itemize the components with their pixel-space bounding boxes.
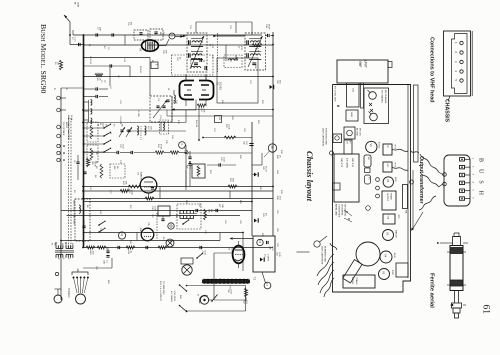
osc coil pair	[137, 126, 139, 135]
svg-text:C4: C4	[109, 86, 111, 89]
svg-text:12: 12	[120, 233, 123, 236]
choke box 2	[87, 145, 98, 162]
svg-text:ECH81: ECH81	[219, 82, 222, 90]
svg-text:R48: R48	[179, 295, 181, 300]
svg-text:R36: R36	[280, 190, 282, 195]
svg-text:C39: C39	[204, 230, 206, 235]
svg-text:V5: V5	[382, 271, 386, 275]
long wire Y210	[61, 210, 252, 212]
svg-text:O.O1: O.O1	[271, 246, 273, 252]
long wire pair 2	[83, 198, 273, 200]
cap on Y35 b	[112, 33, 114, 36]
svg-text:V4: V4	[384, 254, 388, 258]
gram plug	[76, 294, 86, 304]
resistor on left rail	[59, 60, 62, 70]
grid box	[346, 110, 358, 121]
long wire pair 1	[83, 186, 273, 188]
left rail 2 (dashed lead pair)	[68, 118, 70, 248]
svg-text:R1O: R1O	[99, 210, 101, 215]
svg-text:C41: C41	[224, 220, 226, 225]
svg-text:C45: C45	[269, 246, 271, 251]
dial lamp holder	[410, 180, 414, 184]
svg-text:EABC8O: EABC8O	[139, 172, 142, 181]
svg-text:FL: FL	[51, 243, 53, 246]
svg-text:R11: R11	[200, 109, 202, 113]
svg-text:1OOK: 1OOK	[228, 124, 230, 130]
svg-text:R27: R27	[209, 170, 211, 175]
svg-text:4: 4	[472, 182, 474, 184]
svg-text:C1: C1	[100, 80, 102, 83]
svg-text:1ST: 1ST	[346, 141, 348, 145]
svg-text:2: 2	[155, 64, 158, 66]
ferrite rod mount	[452, 303, 462, 308]
wire Y240	[61, 240, 220, 242]
valve V1 on chassis	[366, 141, 377, 152]
svg-text:R9 56O: R9 56O	[139, 66, 141, 73]
svg-text:S3: S3	[113, 124, 115, 126]
trimmer C13	[120, 130, 123, 132]
svg-text:m: m	[170, 34, 174, 37]
left edge small box	[333, 183, 341, 190]
svg-text:IFT3: IFT3	[240, 46, 242, 51]
svg-text:C9: C9	[117, 75, 119, 78]
svg-text:LEAD: LEAD	[77, 2, 80, 8]
svg-text:FL 6A: FL 6A	[70, 115, 73, 121]
IFT2 box	[383, 144, 392, 155]
svg-text:Output transformer: Output transformer	[418, 156, 424, 204]
resistor R36 vert	[204, 209, 207, 220]
cap C42 on rail	[249, 144, 253, 146]
VHF connector pins 1-5	[460, 41, 463, 44]
chassis inner edge line	[407, 85, 409, 278]
HT feed arrow to V4	[233, 238, 253, 240]
svg-text:5: 5	[454, 79, 458, 81]
loudspeaker	[182, 265, 192, 275]
gang caps	[153, 100, 167, 118]
aerial coil taps	[91, 100, 92, 106]
dropper resistor strip	[403, 185, 408, 209]
input terminal column	[57, 144, 60, 147]
output transformer T2	[202, 280, 250, 284]
svg-text:LAST COMPONENT: LAST COMPONENT	[321, 246, 324, 265]
svg-text:GP: GP	[76, 269, 80, 273]
svg-text:56K: 56K	[210, 209, 212, 213]
svg-text:2O4: 2O4	[102, 123, 104, 127]
svg-text:R13: R13	[177, 120, 179, 125]
gram socket pins	[73, 277, 75, 279]
mains switch lever	[212, 295, 218, 302]
vertical 240 bottom	[219, 233, 221, 241]
svg-text:VOL: VOL	[387, 216, 389, 221]
VHF connector chassis lead	[448, 96, 450, 101]
svg-text:C26: C26	[211, 55, 213, 60]
svg-text:C5: C5	[91, 162, 93, 165]
OSC cable	[392, 167, 408, 170]
svg-text:R5: R5	[86, 205, 88, 208]
svg-text:R34: R34	[276, 155, 278, 160]
svg-text:AERIAL LEAD: AERIAL LEAD	[335, 204, 338, 216]
svg-text:C49: C49	[262, 166, 264, 171]
svg-text:IFT: IFT	[348, 141, 350, 145]
cap below Y247	[106, 251, 109, 253]
left rail	[60, 88, 62, 300]
cap stack C30	[188, 157, 191, 159]
svg-text:UNIT: UNIT	[364, 60, 368, 68]
numbered box 14	[215, 116, 222, 123]
svg-text:C48: C48	[221, 204, 223, 207]
svg-text:O.O1: O.O1	[204, 251, 206, 257]
svg-text:R33: R33	[225, 124, 227, 127]
IFT2 cable	[392, 149, 408, 151]
resistor R6 vertical	[100, 164, 103, 178]
grid circuit wire rectangle	[217, 58, 258, 103]
connector DR455 left loops	[443, 173, 447, 177]
svg-text:2: 2	[454, 51, 458, 53]
valve V5 on chassis	[379, 269, 390, 280]
circled node 12	[118, 232, 125, 239]
svg-text:2ND IFT3: 2ND IFT3	[340, 158, 342, 168]
svg-text:C12 8OP: C12 8OP	[119, 116, 121, 125]
svg-text:FIT 107 ML-2808: FIT 107 ML-2808	[334, 86, 336, 102]
wire V249 vertical	[213, 253, 215, 283]
wire Y122 osc	[83, 122, 186, 124]
res on Y75	[95, 73, 103, 76]
output trans box	[382, 191, 396, 210]
svg-text:C14: C14	[89, 186, 91, 191]
svg-text:5O: 5O	[265, 213, 267, 216]
svg-text:LS: LS	[264, 254, 266, 257]
circled meter M	[169, 33, 175, 39]
svg-text:AE: AE	[74, 2, 77, 5]
svg-text:C1O: C1O	[123, 58, 125, 63]
V1 left components	[174, 95, 175, 103]
ext speaker parts	[260, 258, 263, 262]
circled node 4	[179, 142, 186, 149]
VHF cable lead 1	[420, 154, 439, 172]
electrolytic C52 on HT rail	[270, 85, 273, 89]
svg-text:FS1: FS1	[229, 286, 231, 289]
svg-text:6: 6	[472, 197, 474, 199]
mid cluster caps	[117, 151, 119, 154]
resistors on mid wires	[120, 189, 129, 192]
svg-text:C7: C7	[96, 27, 98, 30]
earth bus (heavy)	[83, 35, 85, 249]
mains plug	[200, 296, 208, 304]
dial window rect	[414, 85, 419, 162]
arrow into IFT2	[183, 35, 186, 37]
trimmer C15	[127, 130, 130, 132]
svg-text:C22: C22	[229, 25, 231, 30]
caps C1 C2 cluster	[96, 87, 98, 90]
AGC wire with arrow	[172, 109, 274, 111]
svg-text:L5: L5	[109, 132, 111, 135]
svg-text:L5: L5	[99, 123, 101, 125]
svg-text:R18: R18	[231, 116, 233, 121]
svg-text:STEREO: STEREO	[67, 288, 69, 298]
svg-text:Ferrite aerial: Ferrite aerial	[429, 273, 435, 308]
svg-text:R37: R37	[261, 233, 263, 238]
cap C32	[219, 163, 221, 166]
svg-text:EZ80: EZ80	[391, 270, 393, 276]
svg-text:4OP: 4OP	[99, 27, 101, 32]
box L4 L5	[347, 83, 360, 107]
svg-text:C34: C34	[151, 206, 153, 211]
svg-text:3RD IFT4: 3RD IFT4	[351, 158, 353, 168]
svg-text:AE TRIM: AE TRIM	[356, 128, 359, 136]
channel trimmers	[369, 92, 377, 100]
caps on Y210	[196, 209, 198, 212]
VHF cable lead 3	[419, 196, 436, 210]
svg-text:S5: S5	[95, 152, 97, 155]
cap C2 left of bus	[79, 43, 81, 46]
svg-text:C52: C52	[276, 80, 278, 85]
svg-text:NUMBERS USED: NUMBERS USED	[324, 246, 326, 263]
svg-text:O.1: O.1	[105, 260, 107, 263]
V1 electrodes	[184, 85, 209, 95]
svg-text:A.E GANG: A.E GANG	[346, 158, 349, 168]
gram sockets bracket	[72, 272, 88, 275]
svg-text:R25: R25	[254, 65, 256, 70]
svg-text:17: 17	[265, 283, 269, 286]
svg-text:L1O: L1O	[229, 58, 231, 62]
svg-text:L4/1: L4/1	[352, 88, 354, 93]
svg-text:L1O: L1O	[147, 126, 149, 130]
svg-text:R29: R29	[129, 240, 131, 245]
svg-text:4: 4	[454, 70, 458, 72]
tuning gang dashed box	[150, 96, 172, 122]
svg-text:C51: C51	[276, 210, 278, 215]
svg-text:IFT2: IFT2	[394, 145, 396, 150]
ferrite rod mount arrow	[450, 304, 453, 306]
svg-text:OUTPUT: OUTPUT	[386, 193, 388, 202]
arrow into IFT3	[213, 35, 216, 37]
svg-text:C55: C55	[276, 228, 278, 233]
svg-text:T2: T2	[253, 277, 257, 281]
svg-text:1M: 1M	[57, 62, 59, 65]
svg-text:C42: C42	[239, 220, 241, 225]
electrolytic C49	[254, 173, 257, 177]
svg-text:TH1: TH1	[367, 157, 369, 161]
svg-text:C36: C36	[198, 203, 200, 208]
junctions mid	[82, 186, 84, 188]
svg-text:R46: R46	[107, 280, 109, 285]
svg-text:1: 1	[454, 42, 458, 44]
svg-text:P: P	[57, 258, 59, 260]
svg-text:C17: C17	[109, 190, 111, 195]
svg-text:15O: 15O	[92, 251, 94, 255]
dial drum	[356, 242, 380, 266]
svg-text:Connections to VHF head: Connections to VHF head	[429, 37, 435, 103]
svg-text:3: 3	[454, 61, 458, 63]
svg-text:R16: R16	[157, 144, 159, 149]
svg-text:C5O: C5O	[276, 170, 278, 175]
svg-text:OSC: OSC	[386, 164, 388, 169]
svg-text:CHASSIS: CHASSIS	[444, 99, 450, 123]
svg-text:O.O5: O.O5	[278, 252, 280, 258]
svg-text:C6: C6	[73, 160, 75, 163]
svg-text:3: 3	[472, 174, 474, 176]
chassis layout pointer circle	[314, 241, 320, 247]
svg-text:15: 15	[270, 145, 274, 148]
svg-text:61: 61	[481, 305, 491, 315]
svg-text:C37: C37	[151, 214, 153, 219]
svg-text:TO TAPE REC: TO TAPE REC	[162, 281, 165, 295]
small rounded TP	[365, 175, 371, 184]
circled node 17	[264, 282, 271, 289]
svg-text:68O: 68O	[232, 178, 234, 182]
svg-text:C25: C25	[165, 140, 167, 145]
svg-text:3 OHM: 3 OHM	[267, 254, 269, 261]
screen box parts	[76, 162, 79, 164]
MW LW dashed box	[110, 164, 125, 178]
IFT1 dashed stub	[160, 120, 169, 134]
svg-text:C3O: C3O	[183, 150, 185, 155]
svg-text:MAINS: MAINS	[351, 277, 354, 284]
svg-text:V3: V3	[386, 232, 390, 236]
svg-text:S2: S2	[105, 124, 107, 126]
svg-text:22O: 22O	[245, 300, 247, 304]
trimmer dashed box 2	[150, 29, 163, 40]
svg-text:4: 4	[180, 143, 184, 145]
svg-text:R38: R38	[276, 196, 278, 201]
svg-text:R28: R28	[139, 228, 141, 233]
svg-text:R34: R34	[280, 150, 282, 155]
VHF unit box	[337, 60, 388, 83]
S5 S6 levers	[98, 224, 100, 226]
VHF cable lead 2	[420, 172, 439, 187]
wire IFT3 to rail	[266, 35, 268, 37]
svg-text:LW: LW	[116, 166, 118, 169]
resistor R33	[224, 136, 236, 139]
svg-text:V3: V3	[137, 172, 139, 175]
wire Y116	[167, 115, 273, 117]
svg-text:C27: C27	[213, 128, 215, 133]
L8 dashed can	[224, 55, 242, 68]
rail X252	[251, 122, 253, 236]
svg-text:TP1: TP1	[368, 177, 370, 180]
coupling can dashed	[172, 55, 214, 75]
svg-text:ECH81: ECH81	[378, 142, 380, 149]
vertical X199 under V1	[198, 106, 200, 140]
svg-text:C18: C18	[176, 57, 178, 60]
wires mid right	[186, 152, 252, 154]
svg-text:R33: R33	[239, 200, 241, 205]
svg-text:47OK: 47OK	[160, 144, 162, 150]
wire Y131	[126, 130, 186, 132]
svg-text:R4O: R4O	[89, 251, 91, 256]
cap on Y35 a	[96, 33, 98, 36]
mains wires	[187, 285, 246, 287]
svg-text:C6: C6	[107, 47, 109, 50]
svg-text:C43: C43	[262, 213, 264, 218]
svg-text:P: P	[67, 258, 69, 260]
svg-text:C3 O.O4: C3 O.O4	[89, 56, 91, 65]
svg-text:R31: R31	[229, 178, 231, 183]
svg-text:C21: C21	[127, 22, 129, 27]
valve V3 triode	[140, 177, 157, 193]
bottom right small box	[396, 263, 408, 277]
svg-text:O.O1: O.O1	[122, 144, 124, 150]
svg-text:C44: C44	[103, 260, 105, 263]
switch wires	[84, 127, 105, 129]
svg-text:47O: 47O	[279, 196, 281, 200]
screen box 2 (dashed)	[75, 199, 90, 241]
svg-text:A.C. MAINS: A.C. MAINS	[170, 291, 173, 302]
svg-text:L8: L8	[167, 88, 169, 91]
svg-text:C31: C31	[249, 80, 251, 85]
resistors on Y247	[86, 246, 95, 249]
svg-text:TRANS: TRANS	[355, 277, 358, 285]
svg-text:C2: C2	[103, 80, 105, 83]
svg-text:4.7K: 4.7K	[257, 48, 259, 53]
misc interconnect wires	[83, 65, 130, 67]
channel coil box	[364, 88, 389, 124]
junction dots top	[83, 34, 85, 36]
svg-text:1OO: 1OO	[245, 141, 247, 146]
trimmer in box	[139, 33, 142, 35]
meter arrow	[180, 35, 183, 37]
svg-text:O.O4: O.O4	[230, 289, 232, 295]
mains switch S7a	[180, 285, 187, 291]
svg-text:IOO: IOO	[279, 80, 281, 84]
svg-text:C19: C19	[189, 25, 191, 30]
HT rail	[272, 32, 274, 236]
svg-text:41: 41	[258, 240, 261, 243]
volume control box	[192, 164, 205, 178]
svg-text:DM: DM	[159, 32, 161, 36]
connector DR455 outline	[444, 155, 470, 206]
circled node 15	[268, 144, 276, 152]
resistor R20 under V3	[128, 185, 141, 188]
dashed pot link	[156, 213, 158, 240]
output transformer pointer	[412, 212, 423, 230]
svg-text:S9: S9	[105, 247, 107, 250]
svg-text:V6: V6	[139, 48, 143, 52]
numbered box 2	[151, 62, 158, 69]
ferrite rod shaft	[454, 291, 456, 304]
svg-text:1: 1	[472, 158, 474, 160]
svg-text:EF89: EF89	[394, 177, 396, 183]
mains transformer T1	[56, 245, 63, 248]
svg-text:5: 5	[472, 190, 474, 192]
valve V1 ECH81 envelope	[180, 81, 195, 100]
svg-text:BUSH: BUSH	[478, 158, 484, 202]
ferrite rod body	[450, 246, 463, 291]
svg-text:R1: R1	[54, 62, 56, 65]
vertical wires top	[185, 75, 187, 81]
svg-text:POSITIONS USED: POSITIONS USED	[325, 128, 327, 146]
svg-text:C29: C29	[243, 128, 245, 133]
svg-text:25OP: 25OP	[268, 24, 270, 30]
cap C20 node	[268, 34, 270, 37]
socket box B	[344, 127, 355, 139]
test point circle	[366, 206, 371, 211]
svg-text:R1: R1	[88, 44, 90, 47]
long wire Y215	[67, 215, 241, 217]
ferrite rod winding bottom	[450, 280, 463, 286]
mains trans box	[343, 275, 375, 288]
svg-text:R19: R19	[122, 181, 124, 186]
speaker switch	[196, 257, 198, 259]
svg-text:C13: C13	[159, 115, 161, 120]
svg-text:LW CHANNEL: LW CHANNEL	[381, 90, 384, 104]
ferrite rod top stem	[454, 233, 459, 237]
wire Y77	[84, 76, 274, 78]
lamp on left edge	[330, 151, 334, 155]
svg-text:R37: R37	[218, 204, 220, 207]
ferrite rod top cap	[453, 237, 461, 246]
resistor under V1	[197, 104, 206, 107]
